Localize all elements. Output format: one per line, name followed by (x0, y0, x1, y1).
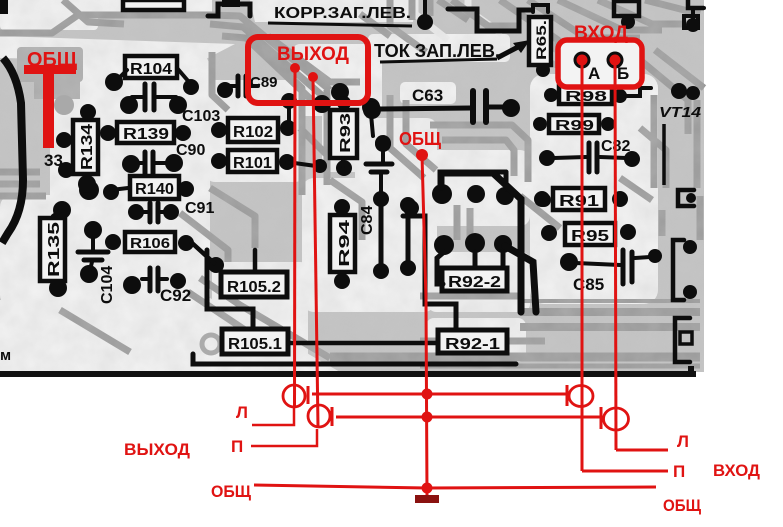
svg-text:R92-2: R92-2 (448, 274, 501, 291)
gray pads (non plated) (54, 95, 74, 115)
resistor R105.1 (193, 250, 516, 364)
partial resistor top-left (123, 0, 184, 10)
resistor R135 (40, 201, 71, 297)
wire under КОРР label (268, 23, 412, 26)
svg-text:R94: R94 (336, 219, 353, 267)
resistor R91 (534, 188, 628, 210)
svg-text:C91: C91 (185, 200, 214, 217)
svg-text:R95: R95 (571, 228, 609, 245)
svg-text:C103: C103 (182, 108, 220, 125)
resistor R140 (79, 176, 194, 200)
svg-text:R134: R134 (79, 124, 96, 170)
svg-text:ОБЩ: ОБЩ (399, 129, 442, 149)
ground marker T (24, 65, 76, 74)
pad input А (574, 52, 591, 69)
svg-text:П: П (231, 437, 243, 456)
pads in output area (313, 83, 380, 116)
resistor R139 (100, 122, 191, 143)
svg-text:ОБЩ: ОБЩ (211, 482, 252, 501)
wire to П label right (582, 470, 668, 473)
svg-text:C104: C104 (99, 266, 116, 304)
svg-text:R135: R135 (46, 222, 63, 277)
pad far top-right (686, 8, 704, 32)
svg-text:ВХОД: ВХОД (574, 23, 628, 44)
resistor R95 (541, 223, 636, 245)
wire under ТОК label (380, 59, 497, 62)
node ВХОД (input annotation box) (560, 42, 640, 85)
resistor R92.2 (434, 233, 512, 291)
pad with stem (417, 0, 433, 30)
scan texture (0, 0, 704, 372)
wire to Л label right (616, 449, 668, 452)
svg-text:R105.1: R105.1 (228, 336, 282, 353)
gray traces (0, 0, 704, 366)
svg-text:м: м (0, 347, 11, 364)
PCB scan base (0, 0, 704, 372)
svg-text:R106: R106 (130, 235, 170, 252)
capacitor C84 (359, 136, 392, 235)
wire staple top (448, 9, 531, 31)
wire ОБЩ bus (254, 485, 656, 488)
wire output П (313, 77, 318, 427)
node ВЫХОД (output annotation box) (248, 37, 368, 103)
resistor R106 (105, 232, 194, 252)
pin tick Л left (307, 386, 310, 404)
svg-text:R101: R101 (233, 155, 272, 172)
wire Л left lead (252, 407, 294, 425)
capacitor C85 (560, 249, 662, 294)
svg-text:R139: R139 (123, 126, 169, 143)
wire VT14 lead (662, 124, 666, 185)
svg-text:C90: C90 (176, 142, 205, 159)
pin tick П left (331, 407, 334, 426)
svg-text:R99: R99 (555, 117, 594, 134)
resistor R94 (330, 199, 355, 289)
resistor R134 (56, 104, 98, 193)
node output Л test point (290, 63, 300, 73)
wire input Б (615, 60, 616, 450)
resistor R98 (544, 86, 651, 105)
resistor R65 (529, 5, 551, 77)
pin tick П right (600, 407, 603, 429)
bracket right 3 (675, 318, 692, 362)
wire (403, 216, 456, 330)
gray patch under ОБЩ label (17, 47, 83, 99)
svg-text:ВХОД: ВХОД (713, 461, 760, 480)
capacitor C90 (122, 142, 205, 174)
PCB bottom edge line (0, 371, 696, 377)
wire П left lead (251, 429, 317, 446)
svg-text:Л: Л (236, 403, 248, 422)
node output П test point (308, 72, 318, 82)
left edge connector outline (2, 58, 23, 243)
connector pin П (input, right) (604, 408, 629, 430)
svg-text:R102: R102 (233, 124, 273, 141)
svg-text:C63: C63 (412, 86, 443, 105)
white patches (0, 0, 658, 372)
svg-text:R92-1: R92-1 (445, 336, 500, 353)
svg-text:ВЫХОД: ВЫХОД (277, 44, 349, 65)
bracket top (208, 0, 250, 16)
junction on ОБЩ bus (422, 483, 433, 494)
connector pin Л (output, left) (283, 385, 305, 407)
bracket right 2 (673, 240, 697, 300)
capacitor C89 (217, 74, 278, 98)
box top-right (614, 1, 639, 29)
capacitor C82 (539, 138, 640, 172)
capacitor C104 (78, 221, 116, 304)
wire output Л (293, 68, 297, 407)
svg-text:Б: Б (617, 64, 629, 83)
centre pads and wires (375, 135, 514, 330)
svg-text:R93: R93 (337, 113, 354, 153)
resistor R92.1 (438, 330, 507, 353)
svg-text:R91: R91 (559, 193, 599, 210)
corner mark (0, 0, 8, 14)
svg-text:VT14: VT14 (659, 104, 702, 121)
svg-text:C84: C84 (359, 206, 376, 235)
pad input Б (607, 52, 624, 69)
connector pin Л (input, right) (569, 386, 593, 407)
resistor R105.2 (192, 243, 287, 297)
svg-text:R105.2: R105.2 (227, 279, 281, 296)
capacitor C63 (363, 86, 520, 122)
bracket right 1 (678, 190, 696, 206)
svg-text:C92: C92 (160, 286, 191, 305)
resistor R102 (211, 93, 297, 142)
svg-text:П: П (673, 462, 685, 481)
svg-text:C89: C89 (250, 74, 278, 91)
svg-text:КОРР.ЗАГ.ЛЕВ.: КОРР.ЗАГ.ЛЕВ. (274, 5, 411, 22)
node ОБЩ test point (416, 149, 428, 161)
svg-text:ОБЩ: ОБЩ (663, 496, 702, 515)
connector pin П (output, left) (308, 405, 330, 427)
arrow to R65 (497, 47, 518, 58)
svg-text:R140: R140 (135, 181, 174, 198)
wire П bus (336, 416, 601, 419)
svg-text:Л: Л (677, 432, 689, 451)
wire input А (581, 60, 584, 471)
junction on П bus (422, 412, 433, 423)
capacitor C92 (123, 268, 191, 305)
svg-text:C85: C85 (573, 275, 604, 294)
pin tick Л right (566, 385, 569, 406)
capacitor C103 (120, 84, 220, 125)
junction on Л bus (422, 389, 433, 400)
wire Л bus (312, 393, 567, 396)
svg-text:R104: R104 (130, 61, 172, 78)
resistor R101 (211, 150, 316, 172)
wire (207, 250, 253, 327)
transistor VT14 pads (671, 83, 700, 100)
svg-text:R65.: R65. (533, 20, 549, 60)
wire (442, 170, 506, 175)
resistor R104 (105, 56, 199, 95)
resistor R93 (313, 96, 357, 176)
resistor R99 (533, 115, 615, 134)
jumper wires centre (373, 191, 416, 279)
svg-text:А: А (588, 64, 600, 83)
capacitor C91 (128, 200, 214, 222)
wire to R92 block (441, 173, 521, 312)
ground (415, 495, 439, 503)
svg-text:R98: R98 (565, 88, 607, 105)
svg-text:ВЫХОД: ВЫХОД (124, 440, 190, 459)
wire common ОБЩ (422, 155, 427, 495)
